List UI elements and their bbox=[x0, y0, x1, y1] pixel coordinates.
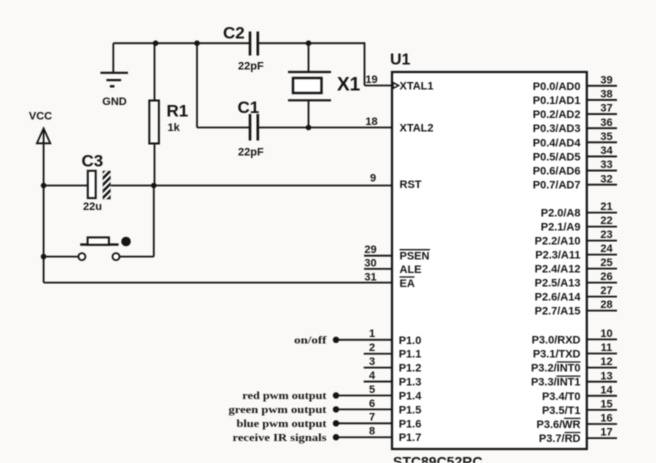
svg-text:P2.0/A8: P2.0/A8 bbox=[541, 208, 581, 220]
svg-text:9: 9 bbox=[370, 172, 376, 184]
svg-text:P3.3/INT1: P3.3/INT1 bbox=[531, 377, 581, 389]
svg-text:28: 28 bbox=[600, 299, 612, 311]
svg-text:RST: RST bbox=[400, 179, 422, 191]
svg-text:26: 26 bbox=[600, 271, 612, 283]
svg-text:5: 5 bbox=[369, 384, 375, 396]
svg-text:1k: 1k bbox=[168, 122, 181, 134]
svg-text:VCC: VCC bbox=[29, 111, 52, 123]
svg-text:P0.0/AD0: P0.0/AD0 bbox=[533, 81, 581, 93]
svg-text:29: 29 bbox=[364, 244, 376, 256]
svg-text:35: 35 bbox=[600, 131, 612, 143]
svg-text:STC89C52RC: STC89C52RC bbox=[393, 454, 482, 463]
svg-text:P2.2/A10: P2.2/A10 bbox=[535, 236, 581, 248]
svg-text:8: 8 bbox=[369, 426, 375, 438]
svg-text:38: 38 bbox=[600, 89, 612, 101]
svg-text:30: 30 bbox=[364, 257, 376, 269]
svg-text:34: 34 bbox=[600, 145, 613, 157]
svg-text:39: 39 bbox=[600, 74, 612, 86]
svg-text:36: 36 bbox=[600, 117, 612, 129]
svg-text:ALE: ALE bbox=[400, 264, 422, 276]
svg-text:23: 23 bbox=[600, 229, 612, 241]
svg-text:P1.2: P1.2 bbox=[399, 363, 422, 375]
svg-text:19: 19 bbox=[365, 74, 377, 86]
svg-text:P2.7/A15: P2.7/A15 bbox=[535, 306, 581, 318]
svg-text:C1: C1 bbox=[238, 98, 260, 117]
svg-text:P3.7/RD: P3.7/RD bbox=[539, 433, 581, 445]
svg-text:32: 32 bbox=[600, 173, 612, 185]
svg-text:22: 22 bbox=[600, 215, 612, 227]
svg-text:3: 3 bbox=[369, 356, 375, 368]
svg-text:P1.7: P1.7 bbox=[399, 432, 422, 444]
svg-text:P0.1/AD1: P0.1/AD1 bbox=[533, 95, 581, 107]
svg-text:X1: X1 bbox=[337, 75, 361, 96]
svg-text:18: 18 bbox=[365, 116, 377, 128]
svg-text:P0.4/AD4: P0.4/AD4 bbox=[533, 137, 582, 149]
svg-text:P1.1: P1.1 bbox=[399, 349, 422, 361]
svg-text:14: 14 bbox=[600, 384, 613, 396]
svg-text:C3: C3 bbox=[82, 152, 104, 171]
svg-text:P0.6/AD6: P0.6/AD6 bbox=[533, 166, 581, 178]
svg-text:C2: C2 bbox=[223, 24, 245, 43]
svg-text:25: 25 bbox=[600, 257, 612, 269]
svg-text:P1.5: P1.5 bbox=[399, 404, 422, 416]
svg-text:P0.3/AD3: P0.3/AD3 bbox=[533, 123, 581, 135]
svg-text:P1.0: P1.0 bbox=[399, 335, 422, 347]
svg-text:24: 24 bbox=[600, 243, 613, 255]
svg-text:XTAL1: XTAL1 bbox=[400, 81, 434, 93]
svg-text:2: 2 bbox=[369, 342, 375, 354]
svg-text:R1: R1 bbox=[167, 102, 189, 121]
svg-text:4: 4 bbox=[369, 370, 376, 382]
svg-text:22pF: 22pF bbox=[238, 147, 264, 159]
svg-text:P2.6/A14: P2.6/A14 bbox=[535, 292, 582, 304]
svg-text:GND: GND bbox=[102, 96, 127, 108]
svg-text:17: 17 bbox=[600, 427, 612, 439]
svg-text:P2.4/A12: P2.4/A12 bbox=[535, 264, 581, 276]
svg-text:27: 27 bbox=[600, 285, 612, 297]
svg-text:21: 21 bbox=[600, 201, 612, 213]
svg-text:receive IR signals: receive IR signals bbox=[233, 432, 328, 444]
svg-text:P2.1/A9: P2.1/A9 bbox=[541, 222, 581, 234]
svg-text:PSEN: PSEN bbox=[400, 251, 430, 263]
svg-text:12: 12 bbox=[600, 356, 612, 368]
svg-text:P3.6/WR: P3.6/WR bbox=[536, 419, 580, 431]
svg-text:P2.5/A13: P2.5/A13 bbox=[535, 278, 581, 290]
svg-text:P3.4/T0: P3.4/T0 bbox=[542, 391, 581, 403]
svg-text:1: 1 bbox=[369, 328, 375, 340]
svg-text:7: 7 bbox=[369, 412, 375, 424]
svg-text:EA: EA bbox=[400, 278, 415, 290]
svg-text:15: 15 bbox=[600, 399, 612, 411]
svg-text:green pwm output: green pwm output bbox=[229, 404, 327, 416]
svg-text:XTAL2: XTAL2 bbox=[400, 123, 434, 135]
svg-text:31: 31 bbox=[364, 271, 376, 283]
svg-text:P2.3/A11: P2.3/A11 bbox=[535, 250, 580, 262]
svg-text:33: 33 bbox=[600, 159, 612, 171]
svg-text:on/off: on/off bbox=[294, 334, 327, 346]
svg-text:22u: 22u bbox=[83, 201, 102, 213]
svg-text:6: 6 bbox=[369, 398, 375, 410]
svg-text:P3.5/T1: P3.5/T1 bbox=[542, 405, 581, 417]
svg-text:blue pwm output: blue pwm output bbox=[237, 418, 327, 430]
svg-text:13: 13 bbox=[600, 370, 612, 382]
svg-text:P1.6: P1.6 bbox=[399, 418, 422, 430]
svg-text:16: 16 bbox=[600, 413, 612, 425]
svg-text:U1: U1 bbox=[390, 52, 411, 69]
svg-text:P1.3: P1.3 bbox=[399, 377, 422, 389]
svg-text:22pF: 22pF bbox=[238, 61, 264, 73]
svg-text:P0.2/AD2: P0.2/AD2 bbox=[533, 109, 581, 121]
svg-text:P3.0/RXD: P3.0/RXD bbox=[532, 334, 581, 346]
svg-text:P1.4: P1.4 bbox=[399, 390, 423, 402]
svg-text:P3.2/INT0: P3.2/INT0 bbox=[531, 363, 581, 375]
svg-text:10: 10 bbox=[600, 328, 612, 340]
svg-text:red pwm output: red pwm output bbox=[242, 390, 327, 402]
svg-text:37: 37 bbox=[600, 103, 612, 115]
svg-text:P0.7/AD7: P0.7/AD7 bbox=[533, 180, 581, 192]
svg-text:11: 11 bbox=[601, 342, 613, 354]
svg-text:P3.1/TXD: P3.1/TXD bbox=[533, 349, 581, 361]
svg-text:P0.5/AD5: P0.5/AD5 bbox=[533, 151, 581, 163]
